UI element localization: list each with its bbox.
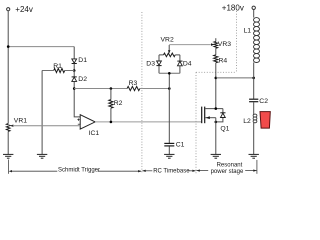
wire box right bottom — [179, 66, 181, 73]
inductor L1 — [254, 18, 260, 63]
svg-text:VR2: VR2 — [161, 37, 174, 44]
capacitor C1 — [164, 141, 184, 148]
svg-text:+180v: +180v — [222, 4, 244, 13]
dashed boundary vertical top (left of L1) — [236, 11, 238, 72]
wire R1 left to ground — [41, 71, 43, 155]
diode D2 — [72, 76, 88, 83]
node junction R2 bottom on output wire — [110, 121, 113, 124]
wire R4 down to drain node — [215, 63, 217, 109]
potentiometer VR2 — [164, 53, 176, 57]
terminal +180v — [222, 4, 256, 13]
svg-text:C1: C1 — [176, 141, 185, 148]
potentiometer VR1 — [6, 117, 27, 131]
wire D3/D4 box top right — [175, 55, 180, 61]
wire top horizontal +24v to D1 — [8, 46, 74, 48]
node junction box bottom — [168, 72, 171, 75]
wire +24v rail vertical — [7, 11, 9, 124]
dashed section divider left (Schmidt/RC) — [141, 12, 143, 174]
svg-text:D3: D3 — [146, 61, 155, 68]
svg-text:R1: R1 — [53, 63, 62, 70]
ground below Q1 — [211, 154, 221, 158]
dimension line Resonant power stage — [196, 170, 256, 172]
wire box left bottom — [158, 66, 160, 74]
ground below C1 — [164, 154, 174, 158]
svg-text:Q1: Q1 — [220, 126, 229, 133]
op-amp IC1 — [77, 115, 99, 138]
svg-text:VR3: VR3 — [218, 41, 231, 48]
svg-text:Schmidt Trigger: Schmidt Trigger — [58, 167, 100, 173]
wire L2 to ground — [253, 123, 255, 155]
capacitor C2 — [249, 98, 268, 105]
dimension line RC Timebase — [142, 170, 195, 172]
wire C1 branch vertical — [168, 73, 170, 143]
transistor Q1 MOSFET — [202, 107, 230, 133]
svg-text:D1: D1 — [78, 57, 87, 64]
wire VR1 wiper to IC1 minus input — [13, 125, 80, 127]
wire Q1 source to ground — [215, 118, 217, 155]
node junction C1 top / R3 — [168, 87, 171, 90]
dashed boundary horizontal step — [196, 71, 237, 73]
svg-text:R2: R2 — [114, 100, 123, 107]
svg-text:L1: L1 — [244, 27, 252, 34]
svg-text:VR1: VR1 — [14, 117, 27, 124]
dashed right end tick — [256, 160, 258, 174]
wire R1 left lead — [42, 70, 54, 72]
svg-text:C2: C2 — [259, 98, 268, 105]
potentiometer VR3 — [214, 38, 231, 48]
wire box bottom bus — [159, 72, 180, 74]
wire D3/D4 box top left — [159, 55, 164, 61]
wire drain node to L1 bottom — [216, 77, 254, 79]
resistor R4 — [214, 55, 228, 64]
wire node A horizontal to R3 — [74, 88, 127, 90]
VR2 wiper arrow — [168, 45, 170, 51]
diode D1 — [72, 57, 88, 64]
wire junction to D2 — [73, 71, 75, 77]
ground below VR1 — [3, 154, 13, 158]
diode D3 — [146, 61, 161, 68]
resistor R1 — [53, 63, 64, 72]
inductor L2 — [253, 114, 257, 123]
wire D1 top stub — [73, 47, 75, 59]
wire C2 to L2 — [253, 102, 255, 115]
node junction R2 top — [110, 87, 113, 90]
wire R2 top lead — [110, 89, 112, 100]
svg-text:D2: D2 — [78, 76, 87, 83]
svg-text:IC1: IC1 — [89, 130, 100, 137]
wire VR1 bottom to ground — [7, 131, 9, 154]
diode D4 — [177, 61, 192, 68]
lamp load red block — [260, 112, 270, 129]
node junction R1/D1/D2 — [73, 69, 76, 72]
svg-text:power stage: power stage — [211, 169, 244, 175]
svg-text:D4: D4 — [183, 61, 192, 68]
node junction L1 bottom — [252, 77, 255, 80]
body diode of Q1 — [216, 109, 226, 122]
ground below R1 left — [37, 154, 47, 158]
wire VR3 to R4 — [215, 48, 217, 55]
resistor R3 — [127, 80, 140, 91]
wire R2 bottom lead — [110, 108, 112, 122]
wire terminal to L1 — [253, 10, 255, 18]
wire R1 right lead — [65, 70, 75, 72]
node junction on +24v rail — [7, 45, 10, 48]
wire IC1 output to Q1 gate — [95, 121, 202, 123]
node junction drain link left — [215, 77, 218, 80]
node A junction — [73, 87, 76, 90]
node junction source/diode anode — [215, 121, 218, 124]
resistor R2 — [109, 100, 123, 109]
wire C1 to ground — [168, 146, 170, 154]
svg-text:R3: R3 — [129, 80, 138, 87]
wire R3 right lead to C1 node — [140, 88, 170, 90]
svg-text:L2: L2 — [243, 118, 251, 125]
wire VR2 wiper to VR3 wiper — [169, 44, 211, 46]
wire D2 down to node A and IC1 plus input — [74, 82, 80, 117]
wire L1 bottom to node — [253, 62, 255, 99]
wire D1 to junction — [73, 64, 75, 71]
terminal +24v — [7, 5, 33, 14]
ground below L2 — [249, 154, 259, 158]
svg-text:Resonant: Resonant — [217, 162, 243, 168]
svg-text:+24v: +24v — [15, 5, 33, 14]
node junction drain lead — [215, 107, 218, 110]
dimension line Schmidt Trigger — [8, 160, 141, 174]
VR3 wiper arrowhead — [211, 43, 214, 46]
svg-text:RC Timebase: RC Timebase — [153, 169, 190, 175]
dashed section divider middle (RC/Resonant) — [195, 72, 197, 174]
svg-text:R4: R4 — [219, 57, 228, 64]
